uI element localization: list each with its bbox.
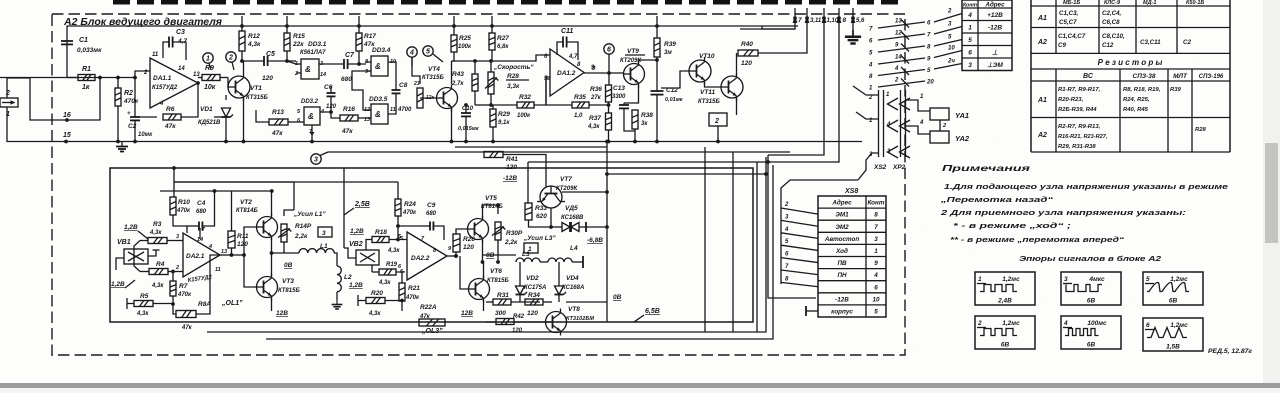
scrollbar track right edge [1263, 0, 1280, 393]
svg-text:1,0: 1,0 [574, 113, 583, 119]
svg-text:120: 120 [506, 164, 517, 171]
resistor R30Р trimmer [495, 222, 501, 240]
resistor R17 [358, 26, 360, 33]
svg-text:&: & [375, 62, 381, 71]
svg-text:47к: 47к [341, 128, 353, 135]
resistor R39 [656, 26, 658, 38]
svg-text:1: 1 [968, 24, 972, 31]
svg-text:DA1.1: DA1.1 [153, 75, 172, 82]
svg-text:VД5: VД5 [565, 205, 578, 212]
svg-text:3к: 3к [641, 121, 648, 127]
right return verticals [756, 162, 758, 332]
svg-text:R20-R23,: R20-R23, [1058, 97, 1084, 103]
capacitor C11 feedback [557, 42, 563, 55]
svg-text:Автостоп: Автостоп [824, 236, 859, 243]
svg-text:Конт: Конт [963, 3, 977, 9]
svg-text:20: 20 [926, 80, 934, 86]
svg-text:4,3к: 4,3к [387, 248, 400, 254]
svg-text:R41: R41 [506, 156, 518, 163]
svg-text:DA2.1: DA2.1 [186, 253, 205, 260]
svg-text:0,033мк: 0,033мк [77, 47, 102, 54]
svg-text:5: 5 [874, 309, 878, 316]
svg-text:0В: 0В [613, 294, 622, 301]
resistor R6 [135, 116, 157, 118]
svg-text:C6,C8: C6,C8 [1102, 19, 1120, 26]
svg-text:10мк: 10мк [138, 132, 153, 138]
transistor VT10 КТ315Б [689, 57, 711, 85]
svg-text:6: 6 [968, 49, 972, 56]
svg-text:4: 4 [894, 66, 899, 72]
svg-text:VТ8: VТ8 [568, 306, 580, 313]
resistor R38 [632, 110, 638, 129]
svg-text:YA2: YA2 [955, 134, 970, 143]
svg-text:3300: 3300 [612, 94, 626, 100]
svg-text:470к: 470к [405, 295, 420, 301]
svg-text:R12: R12 [248, 33, 260, 40]
svg-text:300: 300 [495, 310, 506, 317]
A2 block dashed border [52, 14, 905, 355]
svg-text:6В: 6В [1087, 298, 1096, 305]
capacitor C7 [319, 63, 344, 65]
svg-text:⊥ЭМ: ⊥ЭМ [987, 62, 1003, 69]
svg-text:680: 680 [196, 209, 207, 215]
svg-text:R39: R39 [664, 41, 676, 48]
net box 2 [709, 113, 727, 126]
svg-text:9,1к: 9,1к [498, 120, 510, 126]
svg-text:4,3к: 4,3к [136, 311, 149, 317]
svg-text:С5: С5 [266, 51, 275, 58]
node 4 circled [407, 47, 417, 57]
svg-text:С9: С9 [427, 202, 436, 209]
node 2 circled [226, 52, 236, 62]
vertical feed x344 [343, 168, 345, 248]
svg-text:2: 2 [894, 78, 899, 84]
svg-text:6,8к: 6,8к [497, 44, 509, 50]
svg-text:R19: R19 [386, 262, 398, 268]
wire top rail to bus [762, 26, 795, 29]
svg-text:VТ9: VТ9 [627, 48, 639, 55]
svg-text:R1: R1 [82, 66, 91, 73]
svg-text:DD3.1: DD3.1 [308, 41, 327, 48]
svg-text:ПН: ПН [837, 272, 847, 279]
svg-text:&: & [305, 65, 311, 74]
resistor R32 [517, 102, 534, 108]
ground at rail [116, 142, 128, 152]
svg-text:5: 5 [426, 49, 430, 56]
svg-text:-12В: -12В [835, 296, 849, 303]
resistor R15 [286, 26, 288, 33]
svg-text:680: 680 [341, 76, 352, 83]
svg-text:1,2В: 1,2В [349, 282, 363, 289]
svg-text:4,7: 4,7 [568, 54, 578, 60]
node 5 circled [423, 46, 433, 56]
svg-text:R21: R21 [408, 285, 420, 292]
rail y174 [607, 173, 766, 175]
svg-text:R11: R11 [237, 233, 249, 240]
capacitor C8 [388, 62, 396, 76]
svg-text:R16: R16 [343, 106, 355, 113]
bus line 3,11 [806, 18, 808, 50]
svg-text:„Усил L1”: „Усил L1” [293, 211, 326, 218]
svg-text:R2-R7, R9-R13,: R2-R7, R9-R13, [1058, 124, 1101, 130]
svg-text:С11: С11 [561, 28, 573, 35]
svg-text:СПЗ-38: СПЗ-38 [1133, 73, 1156, 80]
rail y152 [328, 151, 790, 153]
waveform 5 [1143, 272, 1203, 305]
transistor VT11 КТ315Б [721, 73, 743, 101]
svg-text:2 Для приемного узла напряж: 2 Для приемного узла напряжения указаны: [939, 208, 1186, 217]
svg-text:YA1: YA1 [955, 111, 969, 120]
wire pin2 path to node 16 [7, 78, 100, 121]
svg-text:R26: R26 [463, 236, 475, 243]
bottom wire y339 [266, 165, 773, 339]
capacitor C5 [263, 56, 265, 66]
solenoid YA2 [930, 131, 949, 143]
svg-text:6: 6 [874, 284, 878, 291]
svg-text:КД521В: КД521В [198, 120, 221, 126]
svg-text:11: 11 [152, 52, 159, 58]
svg-text:СПЗ-196: СПЗ-196 [1199, 74, 1224, 80]
connector XS2-XP2 [878, 90, 880, 157]
svg-text:1,2В: 1,2В [124, 224, 138, 231]
svg-text:⊥: ⊥ [992, 49, 998, 56]
svg-text:5: 5 [968, 37, 972, 44]
svg-text:4,3к: 4,3к [151, 283, 164, 289]
svg-text:1,2мс: 1,2мс [1170, 276, 1188, 283]
svg-text:6: 6 [1146, 322, 1150, 329]
svg-text:1,2В: 1,2В [111, 281, 125, 288]
svg-text:C8,C10,: C8,C10, [1102, 33, 1125, 40]
op-amp DA1.1 [150, 58, 198, 108]
capacitor C3 feedback [163, 42, 169, 58]
svg-text:VТ2: VТ2 [240, 199, 252, 206]
svg-text:С1: С1 [79, 37, 88, 44]
svg-text:R20: R20 [371, 290, 383, 297]
svg-text:R29: R29 [498, 111, 510, 118]
svg-text:С6: С6 [324, 84, 333, 91]
resistor R29 [490, 109, 496, 127]
svg-text:Эпюры сигналов в блоке А2: Эпюры сигналов в блоке А2 [1019, 254, 1162, 263]
svg-text:R10: R10 [178, 199, 190, 206]
svg-text:470к: 470к [176, 208, 191, 214]
svg-text:2: 2 [228, 55, 233, 62]
svg-text:4,3к: 4,3к [149, 230, 162, 236]
svg-text:R39: R39 [1170, 87, 1182, 93]
bus line 8 [757, 18, 839, 162]
svg-text:VD2: VD2 [526, 275, 539, 282]
svg-text:1: 1 [978, 276, 982, 283]
svg-text:5,6: 5,6 [856, 18, 865, 24]
svg-text:R38: R38 [641, 112, 653, 119]
svg-text:„Усил L3”: „Усил L3” [523, 235, 556, 242]
svg-text:ЭМ2: ЭМ2 [835, 224, 849, 231]
resistor R11 [228, 231, 235, 248]
resistor R33 [525, 203, 532, 220]
wire DD3.4 feedback loop [352, 71, 371, 110]
svg-text:С13: С13 [613, 85, 625, 92]
svg-text:КТ3102БМ: КТ3102БМ [566, 316, 594, 322]
bus line 7 [740, 18, 795, 29]
capacitor C6 [327, 92, 336, 94]
svg-text:3,3к: 3,3к [507, 83, 520, 90]
svg-text:120: 120 [262, 75, 273, 82]
svg-text:ПВ: ПВ [837, 260, 847, 267]
svg-text:4,3к: 4,3к [247, 41, 261, 48]
svg-text:VТ10: VТ10 [699, 53, 715, 60]
svg-text:R31: R31 [497, 292, 509, 299]
svg-text:&: & [308, 112, 314, 121]
inner amplifier sub-block box [110, 168, 753, 322]
svg-text:2: 2 [714, 118, 719, 125]
top supply rail wire [67, 26, 798, 41]
transistor VT1 КТ315Б [228, 73, 250, 101]
svg-text:ХS2: ХS2 [873, 164, 887, 171]
svg-text:ЭМ1: ЭМ1 [835, 212, 849, 219]
svg-text:L1: L1 [320, 243, 328, 250]
svg-text:R15: R15 [293, 33, 305, 40]
svg-text:8: 8 [874, 212, 878, 219]
svg-text:R30Р: R30Р [506, 230, 523, 237]
net 3 circled [311, 154, 321, 164]
svg-text:R3: R3 [153, 221, 162, 228]
svg-text:2,2к: 2,2к [294, 233, 308, 240]
top bus wires inside box [174, 181, 294, 183]
svg-text:100к: 100к [517, 113, 531, 119]
svg-text:1,2В: 1,2В [350, 228, 364, 235]
svg-text:4: 4 [873, 272, 878, 279]
svg-text:3: 3 [322, 230, 326, 237]
svg-text:C9: C9 [1058, 42, 1066, 49]
svg-text:VВ1: VВ1 [117, 239, 131, 246]
svg-text:VВ2: VВ2 [349, 241, 363, 248]
svg-text:DA2.2: DA2.2 [411, 255, 430, 262]
svg-text:VD4: VD4 [566, 275, 579, 282]
svg-text:** - в режиме „перемотка вп: ** - в режиме „перемотка вперед“ [950, 235, 1125, 244]
op-amp DA2.1 [183, 233, 220, 277]
svg-text:R13: R13 [272, 109, 284, 116]
top cut-off heavy dashed rule [113, 0, 903, 5]
svg-text:3: 3 [968, 62, 972, 69]
resistor R27 [491, 26, 493, 33]
transistor VT5 КТ814Б [468, 216, 489, 243]
resistor R36 [608, 73, 610, 85]
svg-text:C1,C4,C7: C1,C4,C7 [1058, 33, 1086, 40]
XS8 feeder bus [781, 180, 858, 284]
svg-text:L3: L3 [522, 251, 530, 258]
svg-text:R28: R28 [1195, 127, 1207, 133]
svg-text:120: 120 [237, 241, 248, 248]
svg-text:2,4В: 2,4В [997, 298, 1012, 305]
svg-text:R6: R6 [166, 106, 175, 113]
inductor L4 [540, 261, 548, 263]
svg-text:DD3.2: DD3.2 [301, 99, 319, 105]
svg-text:МБ-1Б: МБ-1Б [1063, 0, 1080, 6]
svg-text:4,7: 4,7 [177, 38, 187, 45]
svg-text:4700: 4700 [397, 107, 412, 113]
rail y147 [455, 146, 607, 148]
svg-text:КС168А: КС168А [562, 285, 584, 291]
svg-text:11: 11 [215, 267, 221, 273]
node 1 circled [203, 53, 213, 63]
capacitor C12 [656, 60, 658, 91]
svg-text:С2: С2 [128, 123, 137, 130]
inductor L3 [516, 258, 540, 262]
svg-text:4,3к: 4,3к [378, 280, 391, 286]
svg-text:КТ315Б: КТ315Б [422, 75, 444, 81]
svg-text:120: 120 [326, 104, 337, 110]
svg-text:VТ5: VТ5 [485, 195, 497, 202]
bottom window bar [0, 383, 1280, 388]
svg-text:1,2мс: 1,2мс [1002, 276, 1020, 283]
svg-text:R5: R5 [140, 293, 149, 300]
svg-text:РЕД.5, 12.87г: РЕД.5, 12.87г [1208, 348, 1252, 355]
svg-text:А1: А1 [1037, 15, 1047, 22]
waveform 6 [1143, 318, 1203, 351]
resistor R16 [340, 115, 358, 121]
svg-text:14: 14 [178, 66, 185, 72]
svg-text:4: 4 [208, 244, 212, 250]
resistor R10 [170, 197, 176, 215]
svg-text:С8: С8 [399, 82, 408, 89]
svg-text:А2: А2 [1037, 132, 1047, 139]
svg-text:120: 120 [741, 60, 752, 67]
svg-text:16: 16 [63, 112, 71, 119]
inductor L1 [299, 249, 334, 253]
resistor R7 [172, 272, 174, 282]
svg-text:470к: 470к [402, 210, 417, 216]
waveform 2 [975, 316, 1035, 349]
components table (capacitors) [1030, 0, 1032, 152]
svg-text:R8А: R8А [198, 301, 211, 308]
svg-text:2: 2 [784, 202, 789, 208]
resistor R25 [453, 26, 455, 35]
resistor R2 [117, 78, 119, 89]
svg-text:КС175А: КС175А [524, 285, 546, 291]
wire input to DA1.1 pin2 [135, 71, 150, 108]
gate DD3.5 [371, 104, 388, 124]
svg-text:R24, R25,: R24, R25, [1123, 97, 1150, 103]
resistor R22 12к (vert near VT4) [417, 88, 423, 108]
svg-text:0В: 0В [284, 262, 293, 269]
wire mid rail y61 [452, 60, 531, 62]
svg-text:4: 4 [967, 12, 972, 19]
gate DD3.4 [371, 56, 388, 76]
svg-text:ХS8: ХS8 [844, 188, 858, 195]
svg-text:470к: 470к [177, 292, 192, 298]
svg-text:Примечания: Примечания [942, 163, 1030, 173]
resistor R41 [484, 152, 503, 158]
svg-text:4: 4 [886, 122, 891, 128]
node 6 circled [604, 44, 614, 54]
svg-text:С7: С7 [345, 52, 355, 59]
svg-text:R17: R17 [364, 33, 376, 40]
svg-text:R35: R35 [574, 94, 586, 101]
svg-text:R27: R27 [497, 35, 509, 42]
svg-text:C2: C2 [1183, 39, 1191, 46]
svg-text:Р е з и с т о р ы: Р е з и с т о р ы [1098, 58, 1163, 67]
svg-text:VТ7: VТ7 [560, 176, 572, 183]
svg-text:VТ6: VТ6 [490, 268, 502, 275]
bus line 5,6 ground [852, 18, 854, 30]
svg-text:C5,C7: C5,C7 [1059, 19, 1077, 26]
svg-text:5: 5 [1146, 276, 1150, 283]
svg-text:К561ЛА7: К561ЛА7 [300, 50, 326, 56]
svg-text:10: 10 [948, 46, 955, 52]
svg-text:620: 620 [536, 213, 547, 220]
svg-text:3: 3 [314, 157, 318, 164]
svg-text:2: 2 [942, 123, 946, 129]
supply stubs through border [241, 16, 243, 26]
svg-text:R34: R34 [528, 292, 540, 299]
svg-text:13: 13 [221, 249, 227, 255]
svg-text:КТ315Б: КТ315Б [698, 99, 720, 105]
svg-text:МД-1: МД-1 [1143, 0, 1156, 6]
svg-text:R18: R18 [375, 229, 387, 236]
bottom wire y332 [207, 157, 766, 332]
wire VT5/VT6 emitters to L3 [483, 254, 517, 256]
svg-text:VТ4: VТ4 [428, 66, 440, 73]
svg-text:R7: R7 [179, 283, 188, 290]
svg-text:С10: С10 [462, 106, 474, 112]
resistor R14Р trimmer [281, 224, 287, 242]
svg-text:4: 4 [919, 120, 924, 126]
resistors table [1031, 68, 1230, 70]
svg-text:2,5В: 2,5В [354, 201, 370, 208]
waveform 3 [1061, 272, 1121, 305]
resistor R35 [546, 79, 572, 105]
svg-text:2: 2 [175, 265, 179, 271]
svg-text:R40: R40 [741, 41, 753, 48]
trimmer R28 Скорость [488, 72, 494, 94]
svg-text:4: 4 [784, 227, 789, 233]
svg-text:6: 6 [607, 47, 611, 54]
svg-text:А1: А1 [1037, 97, 1047, 104]
wire emitter node to L1 [272, 252, 300, 254]
svg-text:2,2к: 2,2к [504, 239, 518, 246]
svg-text:4: 4 [159, 101, 164, 107]
svg-text:15: 15 [63, 132, 71, 139]
ground at корпус row [806, 310, 818, 312]
resistor R26 [453, 234, 460, 252]
svg-text:R32: R32 [519, 94, 531, 101]
scrollbar thumb [1265, 143, 1278, 243]
svg-text:1,5В: 1,5В [1166, 344, 1180, 351]
svg-text:2,7к: 2,7к [451, 81, 464, 87]
resistor R13 [269, 119, 288, 125]
svg-text:120: 120 [463, 244, 474, 251]
svg-text:К157УД2: К157УД2 [152, 85, 178, 91]
resistor R40 [738, 50, 758, 56]
svg-text:R40, R45: R40, R45 [1123, 107, 1149, 113]
svg-text:9: 9 [874, 260, 878, 267]
table Конт/Адрес [962, 0, 1012, 71]
diode VD1 КД521В [214, 116, 226, 118]
svg-text:Конт: Конт [868, 200, 885, 207]
svg-text:7: 7 [202, 227, 205, 233]
svg-text:C12: C12 [1102, 42, 1114, 49]
svg-text:МЛТ: МЛТ [1173, 73, 1188, 80]
svg-text:-6,8В: -6,8В [587, 237, 603, 244]
svg-text:4: 4 [1063, 320, 1068, 327]
svg-text:+12В: +12В [987, 12, 1003, 19]
svg-text:4,3к: 4,3к [368, 311, 381, 317]
svg-text:1,2мс: 1,2мс [1002, 320, 1020, 327]
svg-text:1,10: 1,10 [827, 18, 839, 24]
transistor VT8 КТ3102БМ [546, 309, 567, 336]
svg-text:7: 7 [874, 224, 878, 231]
svg-text:R8, R18, R19,: R8, R18, R19, [1123, 87, 1161, 93]
resistor R21 [399, 283, 405, 301]
